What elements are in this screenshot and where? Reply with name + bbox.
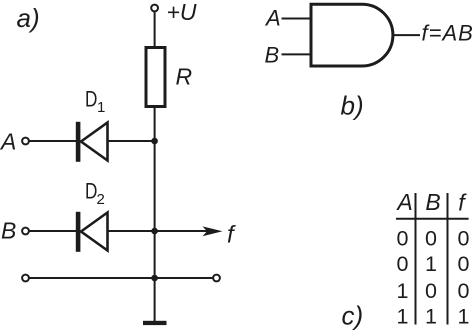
- svg-text:1: 1: [397, 305, 409, 329]
- svg-text:B: B: [265, 43, 280, 68]
- svg-text:b): b): [341, 91, 364, 121]
- svg-text:0: 0: [397, 252, 409, 276]
- svg-text:A: A: [0, 128, 16, 154]
- svg-text:0: 0: [425, 279, 437, 303]
- svg-text:1: 1: [425, 305, 437, 329]
- svg-text:1: 1: [397, 279, 409, 303]
- svg-text:f=AB: f=AB: [422, 20, 474, 45]
- svg-text:f: f: [227, 222, 236, 249]
- svg-text:0: 0: [425, 227, 437, 251]
- svg-text:2: 2: [97, 191, 105, 208]
- svg-text:c): c): [342, 301, 364, 331]
- svg-text:+U: +U: [167, 0, 197, 25]
- svg-text:1: 1: [97, 99, 105, 116]
- svg-text:0: 0: [458, 227, 470, 251]
- svg-text:f: f: [458, 189, 467, 215]
- svg-text:1: 1: [458, 305, 470, 329]
- svg-text:0: 0: [458, 279, 470, 303]
- svg-text:R: R: [176, 64, 193, 90]
- svg-text:A: A: [395, 189, 412, 215]
- svg-text:1: 1: [425, 252, 437, 276]
- svg-text:A: A: [264, 6, 281, 31]
- svg-text:B: B: [425, 189, 440, 215]
- svg-text:0: 0: [397, 227, 409, 251]
- svg-text:a): a): [17, 3, 40, 33]
- svg-text:0: 0: [458, 252, 470, 276]
- svg-text:B: B: [1, 217, 16, 243]
- svg-text:D: D: [85, 88, 97, 113]
